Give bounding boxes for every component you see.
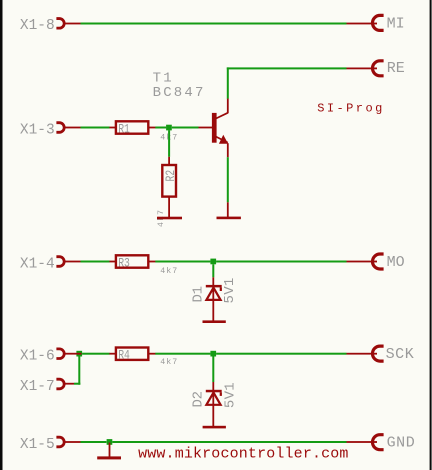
wire X1-4 to R3 <box>81 261 110 263</box>
pin X1-5 connector arc <box>56 437 64 447</box>
junction node X1-6/X1-7 <box>76 351 82 357</box>
wire R4 to junction D2 <box>155 353 210 355</box>
junction node MOSI/D1 <box>210 259 216 265</box>
diode D2 through pin <box>212 392 214 426</box>
ground stub at X1-5 junction <box>109 443 111 457</box>
diode D1 cathode bar <box>206 285 222 288</box>
pin X1-3 red pin stub <box>66 127 81 129</box>
junction node base/R2 <box>166 125 172 131</box>
diode D1 top pin <box>212 277 214 285</box>
resistor R3 right pin <box>148 261 155 263</box>
resistor R2 top pin <box>168 157 170 165</box>
svg-text:4k7: 4k7 <box>160 266 178 276</box>
diode D2 top pin <box>212 382 214 390</box>
wire junction to R4 <box>82 353 110 355</box>
pin X1-3 connector arc <box>56 123 64 133</box>
port MI red pin stub <box>347 23 378 25</box>
port MO connector arc <box>373 254 384 269</box>
ground bar at D2 <box>203 426 226 429</box>
transistor T1 emitter pin <box>227 143 229 157</box>
pin X1-8 connector arc <box>56 19 64 29</box>
pin X1-4 connector arc <box>56 257 64 267</box>
port GND red pin stub <box>347 441 378 443</box>
resistor R4 body <box>116 348 148 360</box>
transistor T1 emitter arrow <box>219 135 228 144</box>
svg-text:X1-5: X1-5 <box>20 437 55 453</box>
wire X1-7 vertical up to junction <box>78 357 80 385</box>
transistor T1 collector pin <box>227 99 229 114</box>
wire D2 junction down <box>212 357 214 383</box>
wire junction down to R2 <box>168 130 170 156</box>
svg-text:X1-3: X1-3 <box>20 122 55 138</box>
diode D2 cathode bar <box>206 390 222 393</box>
diode D1 triangle <box>206 288 220 300</box>
port SCK connector arc <box>373 346 384 361</box>
diode D1 cathode right tick <box>220 287 222 291</box>
left frame border <box>0 0 3 470</box>
junction node GND <box>107 439 113 445</box>
transistor T1 emitter diagonal <box>216 137 228 143</box>
wire junction to SCK port <box>216 353 346 355</box>
pin X1-6 connector arc <box>56 349 64 359</box>
ground bar at D1 <box>203 320 226 323</box>
svg-text:R2: R2 <box>164 170 179 182</box>
port RE red pin stub <box>347 68 378 70</box>
wire D1 junction down <box>212 264 214 277</box>
resistor R4 left pin <box>109 353 116 355</box>
wire junction to MO port <box>216 261 346 263</box>
wire R1 to junction <box>155 127 166 129</box>
transistor T1 base bar <box>212 113 217 143</box>
svg-text:SI-Prog: SI-Prog <box>317 102 385 116</box>
pin X1-7 red pin stub <box>66 383 75 385</box>
svg-text:RE: RE <box>387 60 405 77</box>
resistor R1 right pin <box>148 127 155 129</box>
svg-text:R4: R4 <box>118 349 130 364</box>
pin X1-4 red pin stub <box>66 261 81 263</box>
resistor R1 left pin <box>109 127 116 129</box>
resistor R3 left pin <box>109 261 116 263</box>
diode D1 through pin <box>212 287 214 320</box>
wire net RESET horizontal <box>227 67 347 69</box>
svg-text:D2: D2 <box>190 391 206 407</box>
resistor R4 right pin <box>148 353 155 355</box>
port SCK red pin stub <box>347 353 378 355</box>
svg-text:5V1: 5V1 <box>223 382 239 408</box>
resistor R2 bottom pin <box>168 197 170 217</box>
transistor T1 base pin stub <box>199 127 213 129</box>
pin X1-6 red pin stub <box>66 353 82 355</box>
svg-text:X1-8: X1-8 <box>20 18 55 34</box>
svg-text:X1-6: X1-6 <box>20 349 55 365</box>
svg-text:5V1: 5V1 <box>222 277 238 303</box>
wire X1-7 horizontal <box>74 383 80 385</box>
port GND connector arc <box>373 435 384 450</box>
wire junction to GND port <box>112 441 346 443</box>
port MI connector arc <box>373 15 384 30</box>
svg-text:SCK: SCK <box>386 346 415 363</box>
ground bar at X1-5 junction <box>97 456 121 459</box>
svg-text:R3: R3 <box>118 256 130 271</box>
ground bar at R2 <box>157 217 182 220</box>
resistor R2 body <box>162 165 176 197</box>
svg-text:R1: R1 <box>118 122 130 137</box>
pin X1-7 connector arc <box>56 379 64 389</box>
wire net MISO (X1-8 to MI) <box>81 23 347 25</box>
port RE connector arc <box>373 61 384 76</box>
ground bar at T1 emitter <box>217 217 241 220</box>
svg-text:www.mikrocontroller.com: www.mikrocontroller.com <box>138 446 348 463</box>
wire net RESET vertical to T1 collector <box>227 67 229 98</box>
transistor T1 collector diagonal <box>216 113 228 119</box>
ground stub at T1 emitter <box>227 202 229 217</box>
resistor R3 body <box>116 255 148 267</box>
right frame border <box>430 0 432 470</box>
svg-text:X1-7: X1-7 <box>20 379 55 395</box>
resistor R1 body <box>116 121 148 133</box>
svg-text:MO: MO <box>387 254 405 271</box>
junction node SCK/D2 <box>210 351 216 357</box>
wire R3 to junction D1 <box>155 261 210 263</box>
diode D2 cathode right tick <box>220 392 222 396</box>
port MO red pin stub <box>347 261 378 263</box>
wire junction to T1 base <box>172 127 199 129</box>
diode D2 triangle <box>206 393 220 405</box>
svg-text:X1-4: X1-4 <box>20 256 55 272</box>
svg-text:MI: MI <box>387 16 405 33</box>
wire X1-5 to junction <box>81 441 107 443</box>
svg-text:GND: GND <box>387 434 416 451</box>
wire X1-3 to R1 <box>81 127 110 129</box>
pin X1-5 red pin stub <box>66 441 81 443</box>
wire T1 emitter to ground <box>227 157 229 202</box>
svg-text:D1: D1 <box>190 286 206 302</box>
svg-text:BC847: BC847 <box>153 85 206 101</box>
svg-text:4k7: 4k7 <box>160 357 178 367</box>
pin X1-8 red pin stub <box>66 23 81 25</box>
